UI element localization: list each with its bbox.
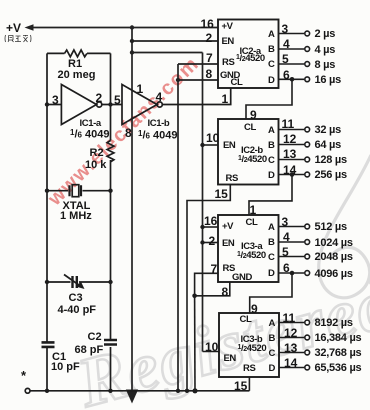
label A IC3-b (269, 319, 275, 329)
input terminal circle (25, 388, 30, 393)
pin 4 (283, 38, 290, 50)
label 2048 us (315, 252, 353, 263)
pin 8 IC3-a (222, 286, 229, 298)
IC2-b EN wire (203, 144, 219, 146)
IC3-a output C wire (279, 256, 305, 258)
pin 9 IC2-b (250, 109, 257, 121)
pin 14 (283, 164, 296, 176)
clock wire to IC2-a pin1 (162, 88, 230, 105)
pin 13 IC3-b (284, 342, 297, 354)
label 1/6 4049 a (70, 129, 110, 141)
label 128 us (315, 155, 347, 166)
pin 11 IC3-b (283, 312, 296, 324)
terminal 2us (305, 31, 310, 36)
terminal 64us (305, 142, 310, 147)
label R2 (90, 148, 104, 159)
pin 3 (282, 23, 289, 35)
IC3-a RS wire (195, 273, 218, 296)
label RS IC3-a (223, 264, 235, 274)
IC3-a output B wire (279, 241, 305, 243)
pin 5 (114, 94, 121, 106)
ground arrow (126, 390, 138, 404)
label (see text) chinese (4, 34, 32, 43)
node dot D carry1 (290, 77, 295, 82)
label 8 us (315, 60, 336, 71)
label 68 pF (75, 345, 104, 356)
IC2-a box (218, 20, 279, 89)
pin 2 IC2-a (206, 32, 213, 44)
terminal 1024us (305, 240, 310, 245)
IC2-a output C wire (279, 63, 305, 65)
pin 11 (282, 118, 295, 130)
wire GND pin8 entry (178, 79, 218, 81)
IC2-a output D wire (279, 78, 305, 80)
IC3-b output C wire (279, 352, 304, 354)
label EN IC2-b (223, 141, 235, 151)
terminal 32768us (305, 350, 310, 355)
pin 10 IC2-b (206, 132, 219, 144)
carry3 wire D to CL9 (250, 273, 292, 313)
terminal 128us (305, 157, 310, 162)
+V supply line (31, 27, 218, 29)
IC3-b box (219, 313, 279, 377)
label C IC2-a (268, 60, 274, 70)
label IC1-b (148, 119, 170, 129)
label 10 pF (51, 362, 80, 373)
pin 8 IC2-a (206, 68, 213, 80)
node dot C1 bottom (45, 389, 49, 393)
node dot EN10 (200, 143, 204, 147)
label D IC2-b (268, 171, 274, 181)
terminal 8us (305, 62, 310, 67)
crystal XTAL wire (47, 190, 111, 192)
pin 13 (283, 148, 296, 160)
label C IC3-a (268, 253, 274, 263)
IC3-b output D wire (279, 367, 304, 369)
oscillator left rail (46, 53, 48, 390)
wire IC1-a out to IC1-b in (102, 104, 122, 106)
IC1-a output bubble (97, 102, 102, 107)
label B IC3-a (268, 238, 274, 248)
C3 arrowhead (77, 281, 85, 289)
label 1/6 4049 b (138, 130, 178, 142)
label C2 (88, 332, 102, 343)
label 2 us (315, 29, 336, 40)
label GND IC2-a (220, 71, 240, 81)
oscillator top wire right (87, 52, 111, 54)
label +V IC2-a (222, 22, 233, 32)
label 256 us (315, 170, 347, 181)
IC3-a box (218, 215, 279, 282)
node dot D carry2 (290, 172, 295, 177)
pin 10 IC3-b (205, 341, 218, 353)
node dot RS15 ground (185, 389, 189, 393)
label R1 (68, 59, 82, 70)
terminal 8192us (305, 320, 310, 325)
inverter IC1-b triangle (122, 85, 157, 125)
ground bus wire (30, 390, 249, 392)
+V arrowhead (25, 24, 34, 30)
pin 2 (96, 92, 103, 104)
resistor R1 (65, 50, 87, 57)
IC3-a output A wire (279, 226, 305, 228)
label 512 us (315, 222, 347, 233)
node dot EN (130, 39, 134, 43)
pin 15 IC2-b (215, 188, 228, 200)
label 4096 us (315, 269, 353, 280)
IC2-b output A wire (279, 129, 305, 131)
op-amp IC1-a inverter triangle (61, 85, 96, 125)
label 1024 us (315, 238, 353, 249)
pin 12 (283, 133, 296, 145)
label D IC3-b (269, 364, 275, 374)
label 16384 us (315, 333, 362, 344)
label 1/2 4520 IC2-a (236, 54, 265, 64)
pin 3 (52, 94, 59, 106)
label 1/2 4520 IC2-b (238, 155, 267, 165)
IC3-a GND loop (195, 282, 230, 296)
node dot D carry3 (290, 271, 295, 276)
label EN IC3-a (222, 239, 234, 249)
IC2-a output B wire (279, 48, 305, 50)
label IC2-b (241, 146, 263, 156)
pin 1 IC3-a (250, 204, 257, 216)
wire EN pin2 (132, 40, 218, 42)
pin 1 IC1-b (137, 83, 144, 95)
node dot C3 left (45, 280, 49, 284)
label +V IC3-a (222, 222, 233, 232)
label 1/2 4520 IC3-b (238, 344, 267, 354)
pin 4 IC3-a (283, 231, 290, 243)
IC3-b output B wire (279, 337, 304, 339)
label IC2-a (240, 47, 261, 57)
crystal plates (70, 185, 82, 196)
IC3-a EN wire (203, 242, 219, 244)
label C IC3-b (269, 349, 275, 359)
terminal 2048us (305, 254, 310, 259)
pin 5 IC3-a (282, 246, 289, 258)
oscillator top wire left (47, 52, 65, 54)
label C3 (69, 293, 83, 304)
label A IC2-b (268, 126, 274, 136)
terminal 4096us (305, 271, 310, 276)
node dot osc out (108, 102, 112, 106)
IC3-a +V wire (203, 226, 219, 228)
label GND IC3-a (232, 273, 252, 283)
label C1 (52, 352, 66, 363)
pin 1 IC2-a (222, 93, 229, 105)
asterisk footnote (21, 369, 26, 382)
+V rail vertical (131, 28, 133, 393)
crystal body (72, 185, 79, 197)
label 4-40 pF (58, 305, 97, 316)
pin 3 IC3-a (282, 216, 289, 228)
label RS IC3-b (243, 364, 255, 374)
C3 plates (73, 276, 77, 288)
capacitor C1 plates (42, 342, 55, 347)
pin 15 IC3-b (234, 380, 247, 392)
node dot xtal left (45, 189, 49, 193)
pin 16 IC3-a (204, 215, 217, 227)
label B IC3-b (269, 334, 275, 344)
pin 9 IC3-b (251, 303, 258, 315)
label EN IC3-b (224, 354, 236, 364)
pin 14 IC3-b (284, 357, 297, 369)
carry1 wire D to CL9 (246, 79, 292, 119)
label CL IC2-a (231, 78, 243, 88)
label D IC2-a (268, 76, 274, 86)
pin 6 IC3-a (283, 262, 290, 274)
IC3-a output D wire (279, 272, 305, 274)
label 20 meg (58, 70, 96, 81)
terminal 16384us (305, 335, 310, 340)
label +V (6, 22, 21, 34)
IC1-b output bubble (157, 102, 162, 107)
node dot +V/16 (130, 25, 134, 29)
node dot GND (176, 78, 180, 82)
label XTAL (63, 201, 91, 212)
label 1/2 4520 IC3-a (237, 251, 266, 261)
pin 4 (156, 91, 163, 103)
IC1-a input wire (47, 104, 61, 106)
label 1 MHz (60, 211, 92, 222)
pin 6 (283, 69, 290, 81)
label B IC2-a (268, 45, 274, 55)
terminal 256us (305, 172, 310, 177)
label B IC2-b (268, 141, 274, 151)
pin 5 (282, 53, 289, 65)
IC3-b output A wire (279, 322, 304, 324)
GND rail IC3 (194, 296, 196, 391)
node dot 2 (200, 240, 204, 244)
label IC3-a (241, 242, 262, 252)
carry2 wire D to CL1 (249, 175, 292, 216)
label A IC2-a (268, 30, 274, 40)
label C IC2-b (268, 156, 274, 166)
label 64 us (315, 140, 342, 151)
label CL IC3-a (246, 218, 258, 228)
pin 8 IC1-b (125, 127, 132, 139)
IC2-b box (218, 119, 279, 185)
EN rail vertical (202, 53, 204, 352)
node dot C3 right (108, 280, 112, 284)
node dot RS feed (130, 50, 134, 54)
node dot GND rail ground (176, 389, 180, 393)
terminal 512us (305, 224, 310, 229)
wire RS pin7 entry (178, 63, 218, 65)
feedback right rail (110, 53, 112, 390)
label IC3-b (241, 335, 263, 345)
node dot GND3 ground (192, 388, 197, 393)
label 32 us (315, 125, 342, 136)
capacitor C3 wire (47, 281, 111, 283)
IC3-b RS15 wire (248, 377, 250, 391)
resistor R2 (107, 141, 114, 162)
terminal 4us (305, 47, 310, 52)
C3 trimmer arrow (64, 275, 81, 287)
label 4 us (315, 45, 336, 56)
label CL IC3-b (240, 315, 252, 325)
pin 7 IC3-a (211, 263, 218, 275)
label RS IC2-a (222, 58, 234, 68)
label 8192 us (315, 318, 353, 329)
capacitor C2 plates (104, 340, 117, 345)
label IC1-a (80, 119, 101, 129)
label 32768 us (315, 348, 362, 359)
terminal 16us (305, 77, 310, 82)
GND rail vertical (177, 64, 179, 391)
label 65536 us (315, 363, 362, 374)
IC2-b RS15 wire (187, 185, 230, 391)
terminal 32us (305, 127, 310, 132)
label CL IC2-b (244, 123, 256, 133)
node dot input (45, 102, 49, 106)
label A IC3-a (268, 223, 274, 233)
pin 2 IC3-a (209, 235, 216, 247)
IC3-b EN wire (203, 351, 220, 353)
pin 16 IC2-a (201, 18, 214, 30)
IC2-b output D wire (279, 174, 305, 176)
terminal 65536us (305, 365, 310, 370)
label RS IC2-b (226, 174, 238, 184)
pin 12 IC3-b (284, 327, 297, 339)
node dot C2 bottom (108, 389, 112, 393)
node dot RS-GND (192, 294, 197, 299)
label EN IC2-a (222, 37, 234, 47)
label 16 us (315, 75, 342, 86)
node dot 16 (200, 225, 204, 229)
node dot xtal right (108, 189, 112, 193)
watermark red www.elecfans.com (44, 53, 204, 211)
IC2-b output B wire (279, 144, 305, 146)
label D IC3-a (268, 269, 274, 279)
IC2-b output C wire (279, 159, 305, 161)
pin 7 IC2-a (206, 52, 213, 64)
IC2-a output A wire (279, 33, 305, 35)
label 10 k (85, 160, 106, 171)
wire RS feed (132, 52, 203, 54)
